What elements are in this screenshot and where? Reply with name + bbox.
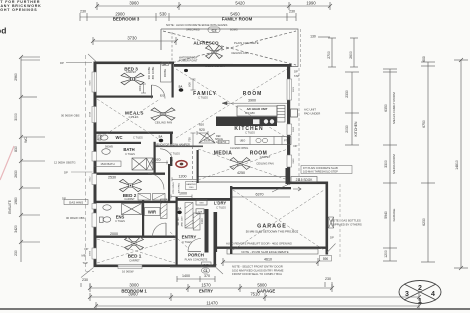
fit plain concrete note [301, 166, 352, 174]
svg-text:NOTE : ALIGN CONCRETE EDGE WIT: NOTE : ALIGN CONCRETE EDGE WITH EAVES [166, 23, 227, 27]
svg-text:2000: 2000 [110, 232, 118, 236]
dim row2 [80, 13, 296, 21]
svg-text:0918: 0918 [90, 111, 92, 117]
svg-text:230: 230 [325, 277, 331, 281]
svg-text:CEILING FAN: CEILING FAN [231, 51, 248, 55]
bed1 fan [125, 237, 144, 250]
alfresco outline [161, 29, 298, 67]
svg-text:ROBE: ROBE [163, 69, 167, 78]
svg-text:14810: 14810 [455, 160, 459, 170]
svg-text:5800: 5800 [257, 283, 267, 288]
svg-text:SA: SA [178, 207, 182, 211]
svg-text:DP: DP [213, 263, 217, 267]
ens basin + wc [103, 205, 111, 210]
svg-text:3960: 3960 [128, 292, 138, 297]
svg-text:MEDIA ROOM: MEDIA ROOM [392, 154, 396, 174]
wall entry left x177 [176, 197, 178, 267]
svg-text:GARAGE: GARAGE [392, 209, 396, 222]
svg-text:1750: 1750 [221, 141, 227, 144]
wall hall right top [170, 132, 172, 145]
column x=390 [383, 69, 397, 261]
svg-text:C TILES: C TILES [170, 152, 180, 156]
dim row1 [95, 2, 332, 10]
wall bed3 bottom [94, 96, 154, 98]
svg-text:900WB: 900WB [105, 146, 113, 149]
wall jog alfresco left [160, 29, 162, 50]
svg-text:50 MM SLAB SETDOWN THIS PROJEC: 50 MM SLAB SETDOWN THIS PROJECT [246, 230, 299, 234]
svg-text:0921: 0921 [293, 86, 295, 92]
wall ens/bed1 y232 [94, 236, 178, 238]
svg-text:3960: 3960 [129, 1, 139, 6]
svg-text:3730: 3730 [127, 36, 137, 41]
svg-text:ARD 1190: ARD 1190 [180, 216, 183, 227]
svg-text:865 ROBE: 865 ROBE [151, 67, 155, 80]
wall entry/garage store x216 [214, 212, 218, 252]
svg-text:POWER POINT: POWER POINT [179, 59, 198, 63]
svg-text:WC: WC [116, 135, 123, 140]
svg-text:HAMPER: HAMPER [186, 183, 196, 186]
media dashed ceiling [198, 149, 288, 180]
svg-text:TUB: TUB [198, 212, 203, 214]
svg-text:MEALS FAMILY ROOM: MEALS FAMILY ROOM [392, 92, 396, 124]
bed3 door arc [152, 85, 166, 99]
wall wc top [94, 132, 174, 134]
svg-text:UBO: UBO [240, 139, 246, 143]
svg-text:0906: 0906 [293, 126, 295, 132]
bed3 fan [121, 73, 144, 85]
right wall chunk media [286, 168, 290, 184]
far right column x=461 [454, 58, 468, 270]
svg-text:CPD OPNG: CPD OPNG [173, 182, 175, 194]
svg-text:6230: 6230 [422, 218, 426, 226]
svg-text:TAP: TAP [294, 74, 299, 78]
svg-text:3900: 3900 [248, 98, 256, 102]
svg-text:1100: 1100 [189, 187, 194, 189]
svg-text:2960: 2960 [14, 73, 18, 81]
wall bath right [154, 142, 156, 173]
svg-text:130: 130 [310, 35, 316, 39]
svg-text:0909: 0909 [90, 250, 92, 256]
svg-text:2330: 2330 [345, 90, 349, 98]
red circled dot [176, 161, 187, 168]
svg-text:C TILES: C TILES [198, 95, 208, 99]
basin [102, 149, 110, 155]
svg-text:6750: 6750 [422, 120, 426, 128]
wall porch right [214, 247, 217, 268]
svg-text:C1: C1 [203, 269, 207, 273]
shower hatched [122, 204, 142, 215]
svg-text:230: 230 [80, 10, 86, 14]
svg-text:C TILES: C TILES [115, 219, 125, 223]
svg-text:970: 970 [155, 158, 161, 162]
svg-text:1570: 1570 [201, 283, 211, 288]
wall bath bottom / bed2 top [94, 173, 166, 175]
svg-text:ENTRY: ENTRY [199, 288, 213, 293]
bed2 robe boxes [138, 194, 151, 201]
svg-text:2700: 2700 [327, 51, 331, 59]
svg-text:1200: 1200 [384, 250, 388, 258]
svg-text:C2: C2 [211, 28, 217, 33]
wall hall left x169 [168, 164, 170, 201]
svg-text:KITCHEN: KITCHEN [354, 121, 358, 136]
svg-text:A/C HEAD UNIT: A/C HEAD UNIT [247, 107, 268, 111]
bottom border line [0, 308, 470, 310]
svg-text:3000: 3000 [14, 113, 18, 121]
svg-text:C TILES: C TILES [245, 131, 255, 135]
red pencil line [0, 146, 14, 180]
svg-text:3: 3 [405, 291, 409, 298]
garage eave dashed [339, 184, 341, 258]
svg-text:DP: DP [60, 61, 64, 65]
kitchen bench dark [216, 117, 277, 127]
svg-text:od: od [0, 26, 6, 36]
kitchen column x=352 [345, 72, 359, 145]
svg-text:DP: DP [85, 247, 89, 251]
wall bath/hall y146 [155, 146, 203, 148]
svg-text:CARPET: CARPET [129, 258, 140, 262]
svg-text:16 06SW: 16 06SW [122, 270, 134, 274]
svg-text:230: 230 [82, 278, 88, 282]
column x=428 [421, 62, 435, 262]
svg-text:2530: 2530 [108, 175, 116, 179]
svg-text:1000: 1000 [138, 85, 142, 91]
wall ldry top [176, 198, 233, 201]
wall garage top right [289, 182, 328, 185]
svg-text:00 96GW OBS: 00 96GW OBS [61, 114, 80, 118]
bath tub hatched [132, 158, 153, 170]
wall bed2/ens y198 [94, 201, 178, 203]
svg-text:BOMS: BOMS [230, 28, 238, 32]
svg-text:WM: WM [200, 203, 204, 205]
svg-text:1400: 1400 [182, 274, 190, 278]
svg-text:DP: DP [294, 144, 298, 148]
svg-text:900 ABV: 900 ABV [245, 111, 255, 115]
svg-text:ENTRY: ENTRY [182, 235, 197, 240]
svg-text:3300: 3300 [384, 160, 388, 168]
svg-text:TAP: TAP [83, 261, 88, 265]
svg-text:DP: DP [62, 197, 66, 201]
svg-text:12 06DH OBSTG: 12 06DH OBSTG [54, 161, 76, 165]
svg-text:0906: 0906 [293, 158, 295, 164]
svg-text:C TILES: C TILES [129, 115, 139, 119]
wall robe right bed3 [172, 64, 174, 98]
linen hatch [185, 203, 200, 231]
wall left [94, 62, 97, 268]
svg-text:L'DRY: L'DRY [214, 201, 226, 206]
wall wc/bath divider [94, 142, 142, 144]
svg-text:WIR: WIR [148, 210, 156, 215]
svg-text:2600: 2600 [349, 51, 353, 59]
svg-text:4610: 4610 [264, 258, 272, 262]
wall wir left [142, 200, 144, 236]
svg-text:SA: SA [179, 84, 183, 88]
svg-text:5940: 5940 [384, 211, 388, 219]
svg-text:1980: 1980 [14, 197, 18, 205]
svg-text:11470: 11470 [206, 301, 218, 306]
svg-text:BENCHTOP 1100W HAMPER: BENCHTOP 1100W HAMPER [155, 143, 190, 147]
svg-text:230: 230 [14, 250, 18, 256]
wall stub x172 [170, 157, 172, 166]
svg-text:900 ROBE: 900 ROBE [147, 67, 151, 80]
wall garage left x230 [230, 186, 232, 254]
svg-text:1200: 1200 [179, 175, 187, 179]
small dim 600 family [191, 79, 196, 90]
svg-text:CH END OPNG: CH END OPNG [230, 146, 248, 150]
svg-text:ENSUITE: ENSUITE [8, 200, 12, 214]
svg-text:PLAIN CONCRETE: PLAIN CONCRETE [185, 258, 208, 262]
eave overhang dashed [85, 55, 87, 271]
svg-text:900W: 900W [204, 140, 211, 143]
svg-text:NOTE - 25 MM SLAB EDGE REBATE: NOTE - 25 MM SLAB EDGE REBATE [241, 250, 288, 254]
svg-text:BED 1: BED 1 [128, 254, 142, 259]
svg-text:PORCH: PORCH [188, 253, 204, 258]
svg-text:2115 SDGK: 2115 SDGK [296, 178, 314, 182]
svg-text:SPECIFIED: SPECIFIED [186, 28, 200, 32]
svg-text:600: 600 [188, 82, 192, 87]
trough & wm [196, 200, 207, 206]
svg-text:600: 600 [422, 56, 426, 62]
2115 SDGK box [291, 177, 317, 183]
bed1 door arc [153, 223, 167, 237]
svg-text:100 MAX THRESHOLD STEP: 100 MAX THRESHOLD STEP [303, 169, 338, 173]
top-left note text [0, 0, 41, 12]
svg-text:370: 370 [204, 274, 210, 278]
robe bed3 [161, 64, 172, 83]
svg-text:CARPET: CARPET [126, 70, 137, 74]
svg-text:1990: 1990 [306, 1, 316, 6]
wall media left x197 [197, 150, 199, 183]
svg-text:SA: SA [159, 135, 163, 139]
windows right wall [287, 79, 292, 100]
meals fan [151, 108, 175, 120]
wall right [287, 66, 290, 185]
svg-text:ALFRESCO: ALFRESCO [193, 41, 219, 46]
wall bottom [94, 265, 217, 268]
svg-text:GAS HWS: GAS HWS [69, 201, 83, 205]
svg-text:1520 BATH: 1520 BATH [100, 162, 114, 166]
corner leader lines [81, 54, 336, 278]
svg-text:WC: WC [24, 137, 28, 143]
svg-text:FRONT DOOR SEAL TO COMPLY BCA: FRONT DOOR SEAL TO COMPLY BCA [232, 272, 282, 276]
svg-text:MEDIA: MEDIA [214, 151, 233, 157]
garage right pier window [329, 217, 334, 228]
svg-text:C TILES: C TILES [125, 152, 135, 156]
front door arc [188, 239, 201, 252]
alfresco ceiling fan [206, 46, 223, 59]
svg-text:WR 280: WR 280 [178, 217, 180, 226]
svg-text:7510: 7510 [250, 292, 260, 297]
svg-text:2030: 2030 [345, 125, 349, 133]
AC head unit box [237, 106, 277, 116]
svg-text:590: 590 [323, 257, 329, 261]
svg-text:MB: MB [82, 253, 86, 257]
svg-text:DP: DP [294, 70, 298, 74]
svg-text:0912: 0912 [90, 176, 92, 182]
media fan [230, 158, 250, 170]
bed2 fan [120, 179, 142, 191]
family ceiling dashed lines [97, 69, 287, 140]
wall family top [174, 64, 292, 67]
svg-text:ENS: ENS [116, 215, 125, 220]
svg-text:240: 240 [203, 263, 208, 267]
svg-text:IGHT OPENINGS: IGHT OPENINGS [0, 8, 37, 12]
wir robe hatch [161, 199, 168, 219]
svg-text:3420: 3420 [14, 225, 18, 233]
bed1 ceiling dashed [97, 232, 188, 263]
svg-text:530: 530 [160, 12, 168, 17]
C2 label [208, 27, 220, 33]
svg-text:DP: DP [330, 236, 334, 240]
lower bench row [235, 137, 291, 145]
svg-text:ROOM: ROOM [243, 91, 263, 97]
media south step thin lines [197, 176, 288, 178]
svg-text:PLAIN CONCRETE: PLAIN CONCRETE [234, 41, 259, 45]
svg-text:2: 2 [418, 285, 422, 292]
media left dashed opening [192, 146, 194, 182]
svg-text:1310: 1310 [200, 218, 204, 224]
AC unit pad [291, 109, 298, 117]
svg-text:3000: 3000 [129, 283, 139, 288]
wall garage bottom [215, 247, 328, 249]
svg-text:PTY: PTY [284, 139, 289, 143]
svg-text:750: 750 [188, 137, 192, 142]
svg-text:6370: 6370 [256, 192, 264, 196]
2121 SDGK door code [197, 63, 233, 67]
dim 1000 bed3 [141, 84, 146, 93]
svg-text:CARPET: CARPET [124, 197, 135, 201]
wall garage top y187 [230, 187, 291, 189]
svg-text:4: 4 [431, 291, 435, 298]
svg-text:1: 1 [418, 298, 422, 305]
svg-text:920: 920 [199, 128, 205, 132]
svg-text:CEILING FAN: CEILING FAN [256, 162, 273, 166]
alfresco inner dashed [300, 29, 302, 68]
porch edge lines [170, 266, 216, 268]
wall ldry left x205 [205, 209, 209, 253]
svg-text:SUPPLIED BY OTHERS: SUPPLIED BY OTHERS [331, 223, 362, 227]
svg-text:820: 820 [199, 123, 204, 127]
svg-text:1000: 1000 [179, 192, 187, 196]
wall garage right [326, 182, 329, 255]
svg-text:230: 230 [289, 10, 295, 14]
svg-text:FAMILY ROOM: FAMILY ROOM [222, 17, 253, 22]
svg-text:AUTO REMOTE PANELIFT DOOR - 46: AUTO REMOTE PANELIFT DOOR - 4610 OPENING [226, 242, 292, 246]
gas hws [64, 200, 88, 205]
svg-text:DP: DP [64, 170, 68, 174]
window bottom wall bed1 [118, 265, 142, 269]
svg-text:C TILES: C TILES [216, 206, 226, 210]
bed2 door arc [148, 174, 164, 190]
wall top bed3 [94, 62, 175, 65]
svg-text:BEDROOM 3: BEDROOM 3 [113, 17, 140, 22]
svg-text:6350: 6350 [384, 104, 388, 112]
hamper box [186, 182, 197, 190]
svg-text:5420: 5420 [235, 1, 245, 6]
svg-text:0918: 0918 [90, 80, 92, 86]
svg-text:CEILING FAN: CEILING FAN [155, 121, 172, 125]
entry step arrow [293, 187, 301, 191]
svg-text:C TILES: C TILES [133, 136, 143, 140]
svg-text:PAD UNDER: PAD UNDER [304, 112, 320, 116]
svg-text:2630: 2630 [14, 170, 18, 178]
dim 3730 [91, 37, 178, 45]
garage door recess [227, 249, 318, 254]
bottom row D [94, 302, 421, 310]
bottom row B [88, 284, 334, 292]
pantry triangle left [199, 133, 215, 143]
1520 bath box [94, 161, 121, 166]
svg-text:4250: 4250 [237, 171, 245, 175]
garage dashed ceiling [233, 190, 324, 250]
svg-text:BATH: BATH [123, 147, 134, 152]
bottom row C [88, 293, 421, 301]
svg-text:830: 830 [14, 146, 18, 152]
appliance tower right [277, 106, 285, 123]
hall-bath door arc [160, 149, 173, 162]
svg-text:00 06GW OBS: 00 06GW OBS [66, 216, 85, 220]
